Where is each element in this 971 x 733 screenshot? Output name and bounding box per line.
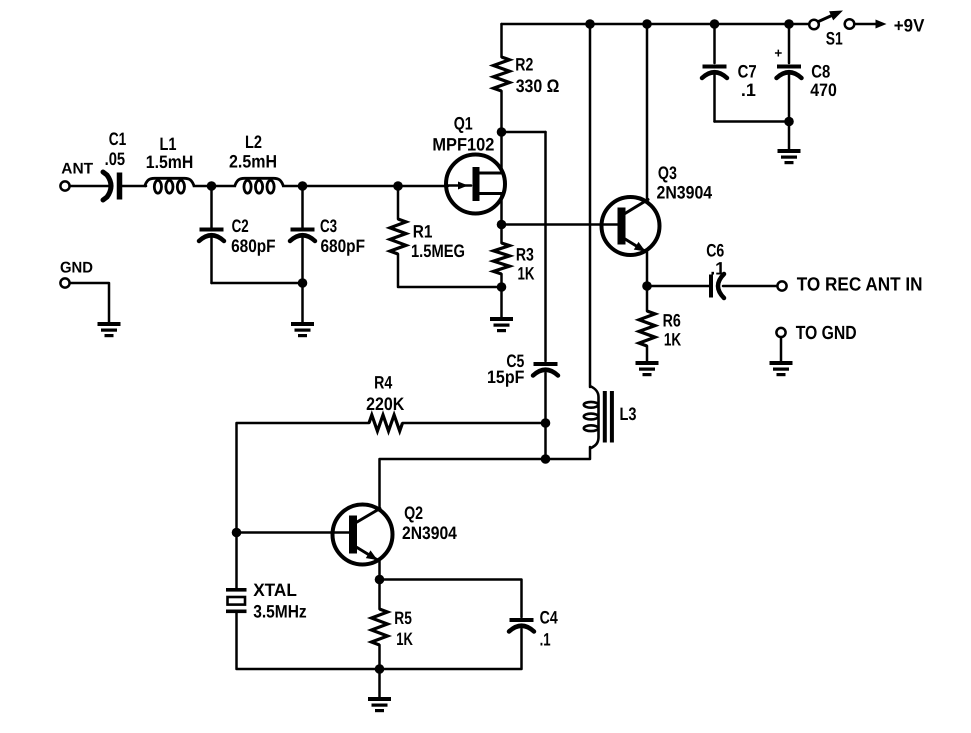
svg-text:MPF102: MPF102 — [432, 134, 494, 154]
wire L2 to node — [284, 185, 303, 188]
wire to Q2 collector — [380, 459, 546, 509]
capacitor C5 — [533, 362, 558, 376]
label R3 value 1K — [518, 264, 535, 284]
svg-text:R6: R6 — [663, 311, 681, 331]
label C8 — [811, 62, 830, 82]
wire C5 node down — [544, 423, 547, 459]
wire Q1 source down — [500, 194, 503, 225]
node C5/R4 junction — [541, 418, 551, 428]
node rail/Q3 collector — [642, 19, 652, 29]
svg-text:1K: 1K — [664, 330, 681, 350]
wire R6 top lead — [646, 286, 649, 311]
wire C8 top lead — [788, 24, 791, 63]
svg-text:Q1: Q1 — [454, 114, 473, 134]
inductor L1 — [145, 178, 195, 193]
ground under C8 — [778, 149, 801, 164]
node L3 bottom junction — [541, 454, 551, 464]
svg-text:TO GND: TO GND — [796, 323, 857, 344]
wire C2 bottom lead — [210, 238, 213, 283]
wire to Q1 gate — [398, 185, 448, 188]
svg-text:1K: 1K — [396, 629, 413, 649]
wire C2 top lead — [210, 186, 213, 228]
label L3 — [620, 404, 637, 424]
node rail/L3 column — [585, 19, 595, 29]
svg-text:15pF: 15pF — [487, 367, 524, 387]
svg-text:R1: R1 — [413, 222, 433, 242]
resistor R5 — [372, 609, 388, 645]
svg-text:1.5MEG: 1.5MEG — [411, 241, 465, 261]
wire drain node to C5 column — [502, 131, 546, 134]
wire L1 to node — [194, 185, 211, 188]
wire top +9V rail — [502, 23, 811, 26]
label Q1 type MPF102 — [432, 134, 494, 154]
wire C5 column down — [544, 132, 547, 361]
ground under R3 — [490, 317, 513, 332]
capacitor C2 — [199, 228, 224, 242]
label R5 value 1K — [396, 629, 413, 649]
wire L2 node to R1 node — [303, 185, 399, 188]
label R1 — [413, 222, 433, 242]
label C3 — [320, 216, 337, 236]
wire C3 bottom lead — [301, 238, 304, 283]
wire R5 top lead — [378, 580, 381, 610]
wire C6 to output terminal — [723, 285, 778, 288]
svg-text:C3: C3 — [320, 216, 337, 236]
wire R5 ground stem — [378, 669, 381, 697]
svg-text:S1: S1 — [826, 29, 843, 49]
wire C8 bottom lead — [788, 75, 791, 122]
ground under TO GND — [770, 361, 793, 376]
label C2 value 680pF — [231, 236, 276, 256]
label C6 value .1 — [710, 258, 725, 278]
label Q2 — [404, 503, 423, 523]
terminal TO REC ANT IN — [777, 281, 786, 290]
wire R1 top lead — [397, 186, 400, 219]
transistor Q2 2N3904 — [333, 505, 393, 565]
svg-text:C4: C4 — [540, 608, 558, 628]
node rail/C7 — [710, 19, 720, 29]
wire R4 left lead and left column — [237, 423, 370, 533]
svg-text:R3: R3 — [516, 244, 534, 264]
wire Q3 emitter down — [646, 252, 649, 286]
svg-text:ANT: ANT — [61, 161, 93, 178]
label C1 — [109, 129, 127, 149]
svg-text:L2: L2 — [245, 132, 262, 152]
wire R3 top lead — [500, 225, 503, 244]
node R1/R3 ground junction — [497, 282, 507, 292]
label C8 plus — [774, 46, 782, 61]
wire XTAL top lead — [235, 533, 238, 589]
wire R3 bottom lead — [500, 274, 503, 287]
transistor Q1 MPF102 JFET — [446, 155, 505, 214]
label TO REC ANT IN — [797, 275, 923, 296]
wire GND terminal to ground — [70, 283, 109, 322]
wire C3 top lead — [301, 186, 304, 228]
node XTAL/base junction — [232, 528, 242, 538]
label C3 value 680pF — [321, 236, 366, 256]
node Q1 source junction — [497, 220, 507, 230]
label C6 — [706, 241, 724, 261]
svg-text:1K: 1K — [518, 264, 535, 284]
wire C5 bottom lead — [544, 373, 547, 423]
svg-text:GND: GND — [60, 260, 93, 277]
label Q2 type 2N3904 — [402, 523, 457, 543]
terminal TO GND — [776, 328, 785, 337]
svg-text:C1: C1 — [109, 129, 127, 149]
label ANT — [61, 161, 93, 178]
svg-text:R4: R4 — [374, 373, 392, 393]
svg-text:L3: L3 — [620, 404, 637, 424]
svg-text:L1: L1 — [160, 134, 177, 154]
resistor R1 — [390, 219, 406, 254]
wire emitter to C6 — [647, 285, 709, 288]
label +9V — [894, 15, 925, 35]
label R4 value 220K — [366, 394, 404, 414]
label Q3 — [658, 163, 677, 183]
core of L3 — [603, 391, 614, 443]
node C2/C3 ground junction — [298, 278, 308, 288]
wire emitter row to C4 — [380, 580, 522, 618]
inductor L3 — [584, 386, 599, 449]
label C7 — [738, 62, 757, 82]
svg-text:R2: R2 — [515, 55, 533, 75]
svg-text:2N3904: 2N3904 — [402, 523, 457, 543]
svg-text:680pF: 680pF — [321, 236, 366, 256]
label C4 value .1 — [540, 629, 551, 649]
svg-text:220K: 220K — [366, 394, 404, 414]
label R2 value 330 ohm — [516, 76, 560, 96]
svg-text:.05: .05 — [105, 149, 126, 169]
wire C3 ground stem — [301, 283, 304, 322]
label R5 — [394, 608, 412, 628]
inductor L2 — [235, 178, 284, 193]
node C7/C8 ground junction — [784, 117, 794, 127]
label C1 value .05 — [105, 149, 126, 169]
wire R1 bottom to R3 node — [398, 254, 502, 287]
resistor R2 — [494, 57, 510, 91]
label R6 value 1K — [664, 330, 681, 350]
wire R2 top lead — [500, 24, 503, 57]
svg-text:+: + — [774, 46, 782, 61]
resistor R4 — [369, 415, 403, 431]
terminal GND — [60, 278, 69, 287]
wire C8 ground stem — [788, 122, 791, 150]
label R1 value 1.5MEG — [411, 241, 465, 261]
label C5 value 15pF — [487, 367, 524, 387]
wire Q2 base — [237, 531, 350, 534]
svg-text:.1: .1 — [741, 80, 756, 100]
capacitor C7 — [702, 65, 727, 79]
wire rail to L3 top — [589, 24, 592, 387]
crystal XTAL — [226, 588, 247, 613]
label C2 — [232, 216, 249, 236]
node L1/L2/C2 junction — [207, 181, 217, 191]
resistor R6 — [639, 311, 655, 346]
terminal ANT — [60, 181, 69, 190]
label S1 — [826, 29, 843, 49]
wire TO GND stem — [780, 337, 783, 361]
label Q3 type 2N3904 — [657, 182, 713, 202]
svg-text:C8: C8 — [811, 62, 830, 82]
wire C7 to C8 bottom — [715, 120, 790, 123]
label Q1 — [454, 114, 473, 134]
capacitor C3 — [290, 228, 315, 242]
resistor R3 — [494, 243, 510, 274]
label L2 — [245, 132, 262, 152]
svg-text:.1: .1 — [540, 629, 551, 649]
wire C4 bottom lead — [380, 629, 522, 669]
wire C1 to L1 — [122, 185, 147, 188]
node rail/C8-S1 — [784, 19, 794, 29]
label TO GND — [796, 323, 857, 344]
wire R2 bottom lead — [500, 91, 503, 132]
label XTAL — [253, 580, 297, 600]
wire R4 right lead — [403, 422, 546, 425]
svg-text:1.5mH: 1.5mH — [146, 152, 194, 172]
wire XTAL bottom to ground row — [237, 613, 380, 669]
label C7 value .1 — [741, 80, 756, 100]
svg-text:.1: .1 — [710, 258, 725, 278]
capacitor C8 — [777, 65, 802, 79]
label C5 — [506, 351, 524, 371]
wire C7 bottom lead — [713, 75, 716, 122]
capacitor C4 — [509, 618, 534, 632]
node Q1 drain junction — [497, 127, 507, 137]
switch S1 — [809, 11, 854, 30]
label R6 — [663, 311, 681, 331]
wire R6 bottom lead — [646, 346, 649, 361]
wire Q3 collector up — [646, 24, 649, 200]
svg-text:Q3: Q3 — [658, 163, 677, 183]
node R5/C4 ground junction — [375, 664, 385, 674]
label C4 — [540, 608, 558, 628]
node Q2 emitter junction — [375, 575, 385, 585]
ground at GND terminal — [98, 322, 121, 337]
wire L3 bottom connection — [546, 447, 591, 459]
label C8 value 470 — [810, 80, 837, 100]
svg-text:TO REC ANT IN: TO REC ANT IN — [797, 275, 923, 296]
label L1 value 1.5mH — [146, 152, 194, 172]
label R3 — [516, 244, 534, 264]
ground under R5 — [368, 697, 391, 712]
svg-text:3.5MHz: 3.5MHz — [253, 602, 307, 622]
svg-text:C2: C2 — [232, 216, 249, 236]
label L1 — [160, 134, 177, 154]
capacitor C6 — [709, 274, 724, 298]
wire R5 bottom lead — [378, 645, 381, 669]
wire Q1 drain up — [500, 132, 503, 173]
wire Q1 source to Q3 base — [502, 223, 618, 226]
wire R3 ground stem — [500, 287, 503, 317]
svg-text:R5: R5 — [394, 608, 412, 628]
wire node to L2 — [212, 185, 235, 188]
node Q3 emitter junction — [642, 281, 652, 291]
svg-text:C7: C7 — [738, 62, 757, 82]
svg-text:330 Ω: 330 Ω — [516, 76, 560, 96]
svg-text:XTAL: XTAL — [253, 580, 297, 600]
svg-text:2N3904: 2N3904 — [657, 182, 713, 202]
ground under C3 — [291, 322, 314, 337]
node gate/R1 junction — [393, 181, 403, 191]
wire ANT to C1 — [70, 185, 111, 188]
label XTAL value 3.5MHz — [253, 602, 307, 622]
wire C2 to C3 bottom — [212, 282, 303, 285]
transistor Q3 2N3904 — [602, 197, 660, 255]
capacitor C1 — [103, 172, 122, 200]
wire Q2 emitter down — [378, 560, 381, 580]
label R2 — [515, 55, 533, 75]
svg-text:Q2: Q2 — [404, 503, 423, 523]
wire arrow to +9V — [855, 20, 887, 29]
label R4 — [374, 373, 392, 393]
svg-text:+9V: +9V — [894, 15, 925, 35]
node L2/C3 junction — [298, 181, 308, 191]
svg-text:2.5mH: 2.5mH — [229, 152, 277, 172]
label GND — [60, 260, 93, 277]
svg-text:470: 470 — [810, 80, 837, 100]
wire C7 top lead — [713, 24, 716, 63]
svg-text:680pF: 680pF — [231, 236, 276, 256]
label L2 value 2.5mH — [229, 152, 277, 172]
ground under R6 — [636, 361, 659, 376]
